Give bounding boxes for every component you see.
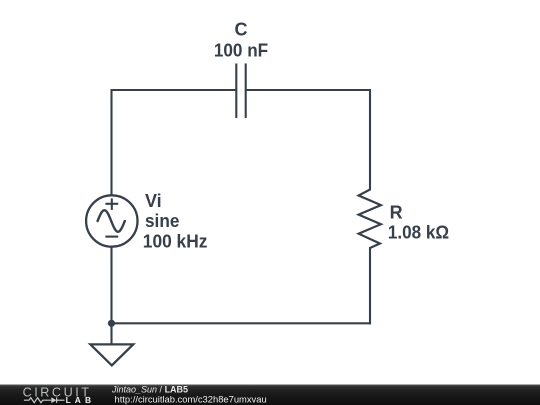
- svg-text:Vi: Vi: [145, 191, 162, 211]
- svg-text:1.08 kΩ: 1.08 kΩ: [388, 223, 449, 243]
- svg-text:http://circuitlab.com/c32h8e7u: http://circuitlab.com/c32h8e7umxvau: [115, 393, 267, 404]
- svg-text:LAB: LAB: [66, 395, 96, 405]
- svg-text:100 nF: 100 nF: [214, 40, 268, 60]
- svg-text:sine: sine: [145, 211, 179, 231]
- svg-text:R: R: [390, 203, 403, 223]
- svg-text:100 kHz: 100 kHz: [143, 232, 208, 252]
- svg-text:C: C: [235, 20, 248, 40]
